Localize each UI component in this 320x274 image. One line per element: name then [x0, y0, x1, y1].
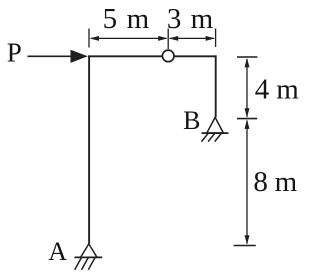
support B: pin triangle	[207, 117, 224, 133]
svg-text:m: m	[127, 3, 150, 35]
svg-text:m: m	[191, 3, 214, 35]
support A: pin triangle	[81, 244, 97, 257]
svg-text:3: 3	[167, 3, 182, 35]
node: internal hinge circle	[162, 50, 174, 62]
svg-text:5: 5	[103, 3, 118, 35]
dimension line 5 m	[91, 37, 167, 39]
dimension line 8 m	[246, 121, 248, 244]
dimension tick at B level	[237, 118, 257, 120]
support A: ground line	[75, 256, 103, 258]
wire: left column	[88, 55, 90, 243]
dimension extension line at right (x=215.6)	[215, 29, 217, 48]
dimension extension line at middle (x=168)	[167, 29, 169, 50]
svg-text:m: m	[275, 166, 298, 198]
support B: hatch lines	[202, 133, 222, 141]
wire: right column	[215, 55, 217, 117]
support B: ground line	[202, 132, 229, 134]
svg-text:P: P	[7, 37, 22, 67]
wire: top beam	[88, 55, 217, 57]
dimension extension line at left (x=89)	[88, 29, 90, 48]
svg-text:B: B	[183, 106, 200, 135]
svg-text:4: 4	[255, 74, 270, 106]
support A: hatch lines	[75, 258, 95, 270]
dimension line 3 m	[170, 37, 214, 39]
svg-text:A: A	[48, 237, 67, 266]
dimension tick at top right (beam level)	[237, 56, 257, 58]
wire: force P arrow shaft	[28, 55, 74, 57]
svg-text:m: m	[276, 74, 299, 106]
dimension tick at bottom (A level)	[234, 245, 256, 247]
force P arrowhead	[71, 50, 88, 63]
svg-text:8: 8	[253, 166, 268, 198]
dimension line 4 m	[246, 59, 248, 117]
